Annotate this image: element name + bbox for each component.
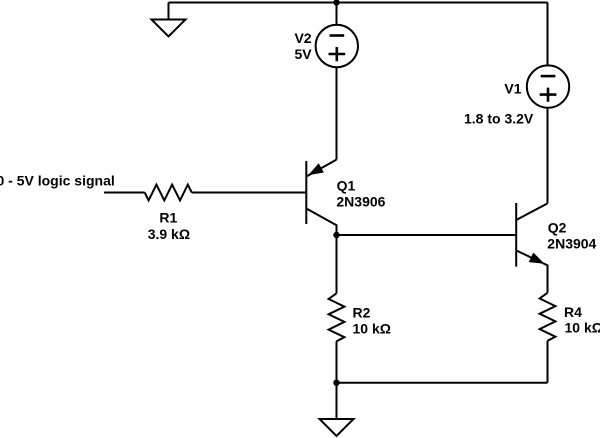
svg-text:R1: R1 — [159, 210, 177, 226]
svg-text:R4: R4 — [564, 304, 582, 320]
svg-text:1.8 to 3.2V: 1.8 to 3.2V — [464, 110, 534, 126]
svg-text:2N3906: 2N3906 — [336, 193, 385, 209]
svg-text:10 kΩ: 10 kΩ — [565, 319, 600, 335]
svg-text:0 - 5V logic signal: 0 - 5V logic signal — [0, 172, 115, 188]
svg-text:Q2: Q2 — [548, 220, 567, 236]
svg-text:10 kΩ: 10 kΩ — [353, 321, 391, 337]
svg-text:5V: 5V — [294, 46, 312, 62]
svg-text:V1: V1 — [504, 80, 521, 96]
svg-text:Q1: Q1 — [337, 178, 356, 194]
svg-text:V2: V2 — [294, 30, 311, 46]
svg-text:3.9 kΩ: 3.9 kΩ — [148, 226, 190, 242]
svg-text:2N3904: 2N3904 — [547, 236, 596, 252]
svg-text:R2: R2 — [353, 304, 371, 320]
